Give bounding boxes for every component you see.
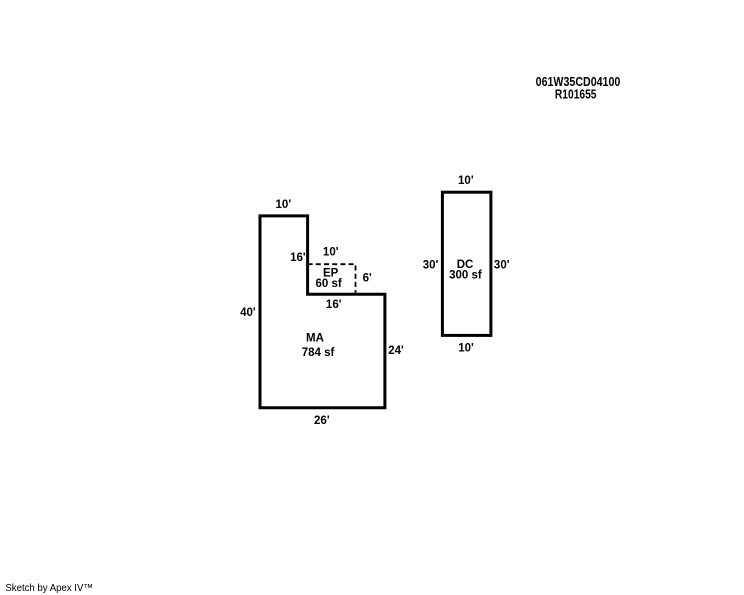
svg-text:784 sf: 784 sf — [302, 347, 335, 359]
svg-text:40': 40' — [240, 307, 256, 319]
dimension label 10' above EP dashed line — [323, 247, 339, 259]
dimension label 10' above DC top edge — [458, 175, 474, 187]
svg-text:30': 30' — [494, 260, 510, 272]
svg-text:6': 6' — [363, 273, 372, 285]
area size label 60 sf — [315, 278, 341, 290]
dimension label 16' left of MA inner wall — [290, 252, 306, 264]
svg-text:10': 10' — [276, 199, 292, 211]
dimension label 24' right of MA right wall — [388, 345, 404, 357]
area label EP — [323, 268, 339, 280]
svg-text:Sketch by Apex IV™: Sketch by Apex IV™ — [5, 583, 93, 594]
svg-text:26': 26' — [314, 415, 330, 427]
header parcel id 061W35CD04100 — [536, 75, 621, 89]
dimension label 6' right of EP dashed line — [363, 273, 372, 285]
svg-text:10': 10' — [458, 343, 474, 355]
area label DC — [457, 259, 474, 271]
svg-text:60 sf: 60 sf — [315, 278, 341, 290]
area label MA — [306, 333, 324, 345]
area size label 784 sf — [302, 347, 335, 359]
svg-text:30': 30' — [423, 260, 439, 272]
svg-text:R101655: R101655 — [555, 88, 597, 102]
dimension label 10' above MA top edge — [276, 199, 292, 211]
svg-text:16': 16' — [326, 299, 342, 311]
dimension label 26' below MA bottom wall — [314, 415, 330, 427]
svg-text:16': 16' — [290, 252, 306, 264]
dimension label 40' left of MA left wall — [240, 307, 256, 319]
dimension label 16' below EP bottom wall — [326, 299, 342, 311]
header record id R101655 — [555, 88, 597, 102]
svg-text:MA: MA — [306, 333, 324, 345]
svg-text:24': 24' — [388, 345, 404, 357]
footer branding Sketch by Apex IV™ — [5, 583, 93, 594]
svg-text:300 sf: 300 sf — [449, 270, 482, 282]
wall outline of detached structure DC (rectangle) — [442, 192, 491, 335]
area size label 300 sf — [449, 270, 482, 282]
dimension label 10' below DC bottom edge — [458, 343, 474, 355]
dashed outline of enclosed porch EP (top and right sides) — [308, 264, 356, 293]
dimension label 30' left of DC — [423, 260, 439, 272]
svg-text:10': 10' — [323, 247, 339, 259]
svg-text:10': 10' — [458, 175, 474, 187]
wall outline of main area MA (L-shaped polygon) — [260, 216, 385, 408]
dimension label 30' right of DC — [494, 260, 510, 272]
